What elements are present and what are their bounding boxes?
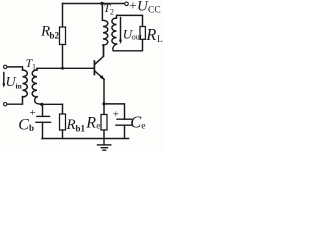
wire T2 primary bottom to collector <box>102 45 105 56</box>
arrow Uout direction <box>120 18 122 42</box>
svg-text:+: + <box>30 107 36 119</box>
wire T1 secondary bottom to bias node <box>35 97 41 105</box>
node junction dot bias/Cb <box>40 103 43 106</box>
node junction dot emitter <box>102 102 105 105</box>
capacitor Cb bottom stem <box>42 122 44 138</box>
svg-text:CC: CC <box>148 6 161 16</box>
wire Rb2 top (rail to resistor) <box>62 4 64 28</box>
wire Rb2 bottom (resistor to base wire) <box>62 45 64 69</box>
wire T2 secondary top to RL <box>117 15 143 26</box>
wire Re top <box>103 104 105 114</box>
svg-text:+: + <box>129 0 136 12</box>
resistor Re <box>101 115 107 131</box>
svg-text:in: in <box>16 82 23 91</box>
svg-text:C: C <box>18 117 29 134</box>
wire bottom ground rail <box>42 138 129 140</box>
wire T1 secondary top stub to base wire <box>36 68 38 70</box>
capacitor Cb bottom plate <box>36 121 51 123</box>
node input terminal top circle <box>3 65 6 68</box>
transistor Q1 base bar <box>93 61 95 75</box>
svg-text:b1: b1 <box>76 124 86 134</box>
capacitor Ce bottom stem <box>124 125 126 138</box>
transistor Q1 emitter arrowhead <box>100 75 105 80</box>
svg-text:R: R <box>145 25 156 44</box>
wire Re bottom to ground rail <box>103 130 105 139</box>
wire Rb1 top <box>62 104 64 114</box>
wire top supply rail <box>63 3 125 5</box>
transformer T1 secondary winding <box>32 70 37 97</box>
resistor Rb1 <box>60 114 66 130</box>
capacitor Cb top plate <box>37 115 50 117</box>
svg-text:e: e <box>141 121 145 131</box>
transistor Q1 emitter lead <box>95 71 104 79</box>
wire base node horizontal <box>37 67 94 69</box>
svg-text:1: 1 <box>32 63 36 72</box>
wire T2 secondary bottom to RL <box>113 39 143 51</box>
wire T1 primary bottom to input terminal <box>7 97 23 105</box>
svg-text:R: R <box>66 117 76 133</box>
node input terminal bottom circle <box>3 103 6 106</box>
wire emitter to Ce horizontal <box>104 104 125 119</box>
ground symbol <box>98 139 111 151</box>
transformer T2 primary top wire <box>101 4 103 21</box>
svg-text:b: b <box>29 123 34 133</box>
transformer T2 secondary winding <box>112 18 117 44</box>
node supply terminal circle <box>125 2 129 6</box>
svg-text:out: out <box>132 33 143 42</box>
svg-text:e: e <box>96 121 100 131</box>
wire bias node horizontal (to Rb1) <box>41 103 63 105</box>
wire emitter vertical <box>103 79 105 104</box>
svg-text:2: 2 <box>110 8 114 17</box>
svg-text:b2: b2 <box>50 31 60 41</box>
svg-text:R: R <box>85 115 96 132</box>
capacitor Ce bottom plate <box>116 124 133 126</box>
resistor RL <box>140 27 145 40</box>
transformer T1 primary winding <box>23 70 28 97</box>
wire Rb1 bottom to ground rail <box>62 130 64 139</box>
capacitor Ce top plate <box>117 118 132 120</box>
svg-text:L: L <box>157 35 163 45</box>
wire T1 primary top to input terminal <box>7 67 23 70</box>
transistor Q1 collector lead <box>95 45 104 64</box>
node junction dot on top rail <box>100 2 103 5</box>
svg-text:+: + <box>113 109 119 121</box>
node junction dot base/Rb2 <box>61 67 64 70</box>
arrow Uin direction <box>3 73 5 86</box>
transformer T2 primary winding <box>103 20 108 45</box>
capacitor Cb top stem <box>42 104 44 116</box>
resistor Rb2 <box>60 27 66 45</box>
